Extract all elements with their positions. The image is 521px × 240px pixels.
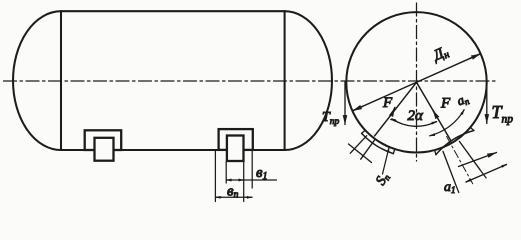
dimension arc ap xyxy=(430,110,464,136)
centerline (horizontal axis through both views) xyxy=(4,80,497,82)
left support leg xyxy=(95,138,114,161)
diameter line Dn xyxy=(352,54,480,111)
extension line (saddle right edge) xyxy=(251,151,253,188)
left elliptical head xyxy=(13,11,61,150)
leg bottom extension 1 xyxy=(480,170,486,178)
right leg axis xyxy=(447,137,473,184)
svg-text:Дн: Дн xyxy=(429,44,451,66)
extension line (saddle left edge) xyxy=(214,151,216,202)
dimension line b1 xyxy=(226,179,276,181)
svg-text:Тпр: Тпр xyxy=(322,110,340,127)
tank shell top line xyxy=(61,10,285,12)
right pad band end caps xyxy=(470,127,474,130)
tank shell bottom line xyxy=(61,149,285,151)
right leg side line 2 xyxy=(443,151,456,184)
dimension line a1 xyxy=(466,165,507,183)
shell circle (cross-section view) xyxy=(346,12,486,152)
right foot line xyxy=(459,153,497,167)
svg-text:ап: ап xyxy=(455,90,471,109)
angle arc 2a xyxy=(392,119,436,126)
left foot line xyxy=(349,144,372,163)
svg-text:вп: вп xyxy=(227,184,239,201)
force line F left xyxy=(375,82,417,136)
left leg side line 2 xyxy=(350,136,366,154)
svg-text:Тпр: Тпр xyxy=(492,102,514,126)
right head seam xyxy=(284,11,286,150)
force line F right xyxy=(417,82,452,141)
svg-text:F: F xyxy=(440,96,451,112)
svg-text:2α: 2α xyxy=(408,108,425,124)
right elliptical head xyxy=(285,11,332,150)
left leg side line 1 xyxy=(361,140,375,160)
Tpr right arrow xyxy=(486,82,488,117)
right support leg xyxy=(227,136,244,162)
svg-text:а1: а1 xyxy=(444,180,456,195)
Tpr left arrow xyxy=(344,82,346,118)
svg-text:в1: в1 xyxy=(256,165,268,182)
leg bottom extension 2 xyxy=(456,184,459,192)
right support saddle plate xyxy=(219,129,253,150)
right leg side line 1 xyxy=(459,141,480,169)
left head seam xyxy=(60,11,62,150)
left pad band outer arc xyxy=(362,133,394,153)
leader Sp xyxy=(383,148,390,175)
vertical centerline xyxy=(416,3,418,161)
dimension line bp xyxy=(216,196,253,198)
left pad band end caps xyxy=(362,130,366,133)
svg-text:F: F xyxy=(382,95,393,111)
right pad band outer arc xyxy=(436,131,474,155)
extension line (leg right edge) xyxy=(243,162,245,202)
extension line (leg left edge) xyxy=(225,162,227,183)
left support saddle plate xyxy=(85,130,122,150)
